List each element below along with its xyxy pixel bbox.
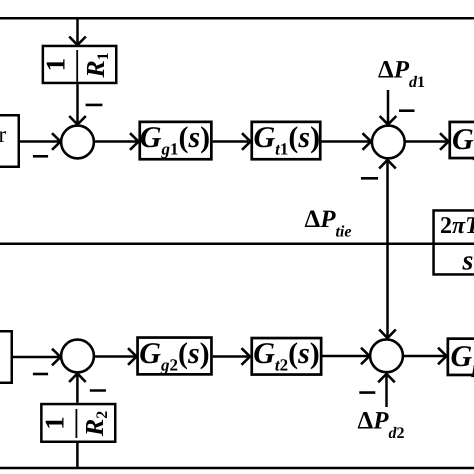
wire from 1/R1 block to summing junction S1 (minus) <box>69 84 102 124</box>
wire G_g1 to G_t1 <box>213 133 251 150</box>
svg-text:1: 1 <box>40 416 70 430</box>
block G_p1(s) power system 1 (cut at right edge) <box>450 122 474 161</box>
svg-text:Gp: Gp <box>451 340 474 378</box>
block G_g1(s) governor 1 <box>140 121 212 159</box>
wire G_t1 to summing junction S2 <box>322 133 371 150</box>
wire bottom feedback line <box>0 467 474 470</box>
wire delta P_d2 into S4 (minus) <box>359 374 395 407</box>
wire bottom line up through 1/R2 to S3 (minus) <box>69 374 106 469</box>
summing junction S1 <box>61 126 94 159</box>
wire S3 to G_g2 <box>95 348 137 365</box>
summing junction S3 <box>61 340 94 373</box>
block G_g2(s) governor 2 <box>138 337 212 375</box>
svg-text:2πT: 2πT <box>440 213 474 239</box>
summing junction S4 <box>370 339 403 372</box>
block controller area 1 (cut at left edge, only 'r' visible) <box>0 115 19 167</box>
wire G_g2 to G_t2 <box>213 348 250 365</box>
wire controller 2 to summing junction S3 (minus) <box>13 349 61 374</box>
wire S4 to G_p2 <box>404 348 447 365</box>
block controller area 2 (cut at left edge) <box>0 331 12 383</box>
svg-text:Gp: Gp <box>452 123 474 161</box>
svg-text:1: 1 <box>41 58 71 72</box>
wire controller 1 to summing junction S1 (minus) <box>20 133 61 156</box>
block 1/R1 (droop, rotated fraction) <box>41 46 117 83</box>
block G_t2(s) turbine 2 <box>252 337 321 375</box>
wire S1 to G_g1 <box>95 133 139 150</box>
wire G_t2 to summing junction S4 <box>323 348 370 365</box>
svg-text:r: r <box>0 122 7 147</box>
svg-text:s: s <box>462 246 474 277</box>
summing junction S2 <box>372 126 405 159</box>
block 1/R2 (droop, rotated fraction) <box>40 404 116 442</box>
wire from top line down into 1/R1 block <box>69 18 86 45</box>
block G_p2(s) power system 2 (cut at right edge) <box>448 339 474 378</box>
wire delta P_d1 into S2 (minus) <box>380 90 415 125</box>
block 2 pi T / s tie line (cut at right edge) <box>434 210 474 276</box>
wire S2 to G_p1 <box>405 133 448 150</box>
wire tie-line horizontal (delta P tie net) <box>0 243 474 246</box>
block G_t1(s) turbine 1 <box>252 121 321 159</box>
wire top feedback line <box>0 17 474 20</box>
wire tie-line vertical S2 to S4 (minus into S2) <box>361 160 396 338</box>
